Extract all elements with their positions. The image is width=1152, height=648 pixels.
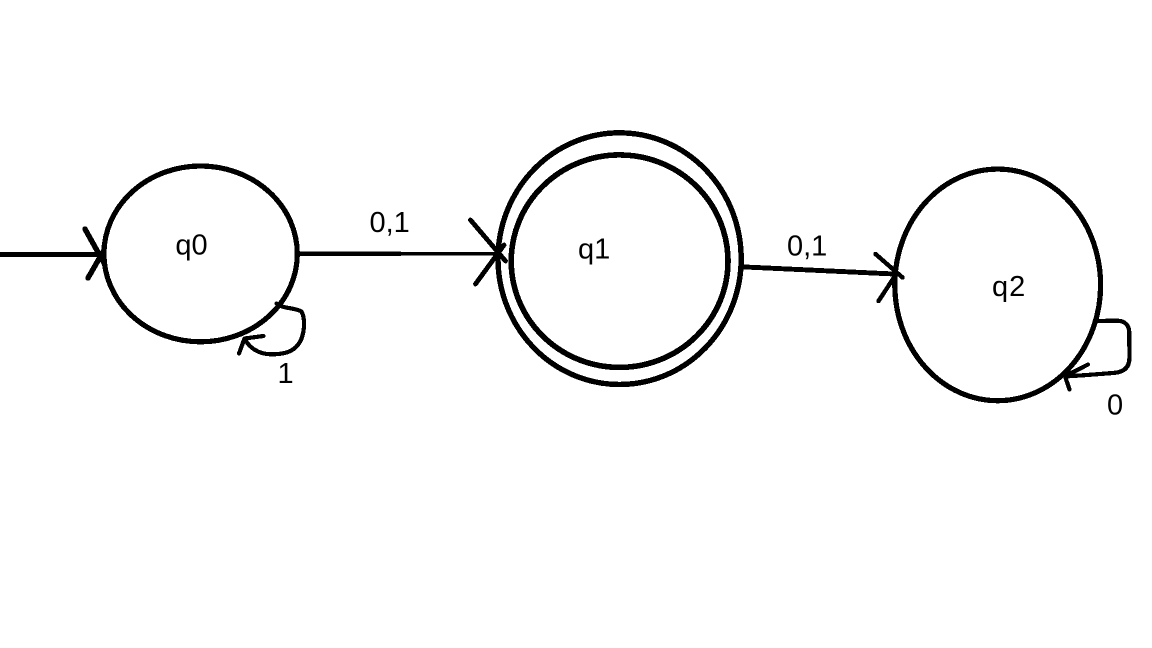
wire q0 to q1 xyxy=(299,251,495,256)
node q0 circle xyxy=(104,166,297,342)
svg-text:q0: q0 xyxy=(175,230,207,262)
wire q1 to q2 xyxy=(741,267,894,274)
arrowhead into q0 xyxy=(85,229,104,278)
node q2 circle xyxy=(895,169,1101,401)
svg-text:1: 1 xyxy=(278,358,294,390)
svg-text:0,1: 0,1 xyxy=(370,207,410,239)
svg-text:0: 0 xyxy=(1107,390,1123,422)
q0 self-loop wire xyxy=(245,304,304,355)
svg-text:q2: q2 xyxy=(992,271,1026,303)
node q1 outer circle (accepting) xyxy=(498,133,741,385)
q2 self-loop arrowhead xyxy=(1065,365,1088,390)
arrowhead into q2 xyxy=(876,254,903,301)
q2 self-loop wire xyxy=(1067,321,1130,377)
svg-text:0,1: 0,1 xyxy=(787,230,827,262)
q0 self-loop arrowhead xyxy=(239,336,264,354)
arrowhead into q1 xyxy=(471,220,506,284)
wire start edge into q0 xyxy=(0,252,100,257)
svg-text:q1: q1 xyxy=(578,234,610,266)
node q1 inner circle xyxy=(511,155,728,368)
